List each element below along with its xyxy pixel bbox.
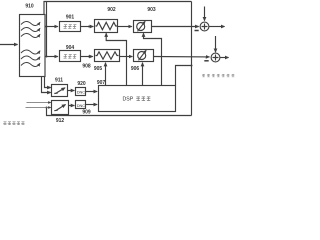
- label: main receiver input (Chinese): [202, 74, 234, 77]
- wire: 903 to summer S1: [152, 26, 199, 28]
- coupler arcs group 2 (inside 910): [21, 50, 40, 67]
- filter 904: [60, 51, 81, 62]
- wire: DSP control to 903: [144, 33, 162, 85]
- svg-text:912: 912: [56, 118, 65, 124]
- wire: feedback vertical from top line down: [191, 2, 193, 116]
- summer S2: [211, 53, 220, 62]
- svg-text:909: 909: [82, 109, 91, 115]
- node: junction V1/row-2: [46, 56, 48, 58]
- variable attenuator 905: [95, 50, 120, 62]
- minus sign at S2 input: [204, 60, 208, 62]
- wire: top main line: [44, 2, 192, 15]
- coupler arcs group 1 (inside 910): [21, 21, 40, 37]
- correlator 911: [52, 85, 68, 97]
- wire: 909 output into DSP: [86, 104, 98, 106]
- svg-text:904: 904: [66, 45, 75, 51]
- svg-text:903: 903: [147, 7, 156, 13]
- node: dot on wire before 902: [88, 26, 90, 28]
- wire: 905 to phase shifter 906: [120, 56, 133, 58]
- svg-text:911: 911: [55, 77, 63, 83]
- svg-text:905: 905: [94, 66, 103, 72]
- wire: drop into summer S2 top: [215, 36, 217, 52]
- value label (Chinese) inside 901: [63, 25, 76, 29]
- svg-text:910: 910: [25, 3, 34, 9]
- node: junction feedback/912 input: [46, 107, 48, 109]
- coupler bank box 910: [20, 15, 46, 77]
- node: junction on feedback vertical: [191, 65, 193, 67]
- wire: sample vertical V1 from top line to row-2: [46, 2, 48, 57]
- correlator 912: [52, 101, 69, 115]
- wire: S1 output: [209, 26, 225, 28]
- down-converter 909: [76, 101, 86, 109]
- wire: DSP control to 902: [106, 33, 126, 85]
- wire: row-2 from 910 to filter 904: [45, 56, 58, 58]
- wire: DSP control to 905: [105, 63, 107, 86]
- filter 901: [60, 22, 81, 32]
- DSP controller 907: [99, 86, 176, 112]
- summer S1: [200, 22, 209, 31]
- label: from receiver (Chinese), bottom left: [3, 122, 24, 125]
- wire: 906 to summer S2: [154, 56, 210, 58]
- wire: 902 to phase shifter 903: [118, 26, 132, 28]
- variable phase shifter 906: [134, 50, 154, 62]
- value label (Chinese) inside DSP box: [136, 97, 150, 101]
- node: junction V1/row-1: [46, 26, 48, 28]
- wire: stub input to 912 upper: [27, 102, 51, 104]
- wire: antenna input into 910: [0, 44, 18, 46]
- down-converter 920: [76, 88, 86, 96]
- wire: 904 to attenuator 905: [81, 56, 93, 58]
- wire: 910 bottom tap to 911 upper input: [45, 77, 51, 88]
- wire: row-1 from 910 to filter 901: [45, 26, 58, 28]
- wire: error input into DSP: [176, 66, 192, 86]
- node: dot on wire before 905: [88, 56, 90, 58]
- svg-text:908: 908: [82, 63, 91, 69]
- wire: S2 output: [220, 57, 229, 59]
- variable phase shifter 903: [134, 21, 152, 33]
- wire: top tap arrow into S1: [204, 7, 206, 21]
- svg-text:906: 906: [131, 66, 140, 72]
- node: dot on 911 upper input: [48, 87, 50, 89]
- wire: 920 output into DSP: [86, 91, 98, 93]
- wire: DSP control to 906: [142, 63, 144, 86]
- svg-text:DNC: DNC: [77, 103, 86, 108]
- wire: 912 output to DNC 909: [69, 105, 75, 107]
- variable attenuator 902: [95, 20, 118, 33]
- wire: bottom feedback to 912: [47, 108, 192, 116]
- svg-text:901: 901: [66, 14, 75, 20]
- wire: 910 bottom tap to 911 lower input: [42, 77, 51, 93]
- svg-text:902: 902: [107, 7, 116, 13]
- value label (Chinese) inside 904: [63, 55, 76, 59]
- wire: 901 to attenuator 902: [81, 26, 94, 28]
- minus sign at S1 input: [195, 30, 199, 32]
- svg-text:DNC: DNC: [77, 90, 86, 95]
- wire: stub input to 912 lower: [26, 107, 51, 109]
- svg-text:920: 920: [77, 81, 86, 87]
- svg-text:907: 907: [97, 80, 106, 86]
- node: dot on 911 lower input: [48, 92, 50, 94]
- wire: 911 output to DNC 920: [68, 90, 75, 92]
- svg-text:DSP: DSP: [123, 97, 134, 103]
